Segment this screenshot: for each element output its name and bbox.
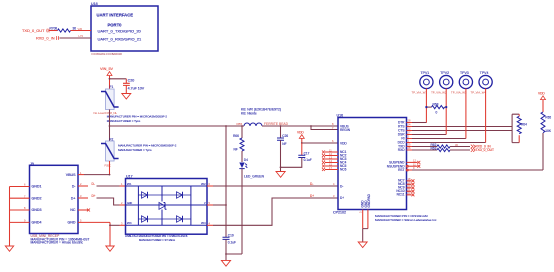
svg-text:D+: D+ — [310, 194, 314, 198]
svg-text:C19: C19 — [228, 233, 234, 237]
svg-text:VDD: VDD — [538, 91, 545, 95]
svg-text:GNDPAD: GNDPAD — [367, 193, 371, 207]
svg-text:R64: R64 — [521, 123, 527, 127]
svg-text:10K: 10K — [545, 129, 552, 133]
svg-text:C17: C17 — [304, 152, 310, 156]
svg-text:MANUFACTURER = Tyco: MANUFACTURER = Tyco — [118, 148, 152, 152]
svg-text:VDD: VDD — [340, 141, 347, 145]
svg-text:TXD_0_OUT: TXD_0_OUT — [476, 148, 494, 152]
svg-text:D-: D- — [92, 182, 95, 186]
svg-text:VIN_5V: VIN_5V — [100, 67, 114, 71]
svg-text:I/O2: I/O2 — [201, 184, 206, 186]
svg-text:NC: NC — [70, 208, 76, 212]
svg-text:NC6: NC6 — [340, 168, 347, 172]
svg-text:REGIN: REGIN — [340, 128, 351, 132]
svg-text:4.7uF 10V: 4.7uF 10V — [128, 87, 145, 91]
svg-text:C26: C26 — [282, 134, 288, 138]
svg-text:0: 0 — [436, 111, 438, 115]
svg-text:MANUFACTURER = ST Micro: MANUFACTURER = ST Micro — [139, 238, 176, 242]
svg-text:FERRITE BEAD: FERRITE BEAD — [264, 122, 289, 126]
svg-text:R63: R63 — [431, 147, 437, 151]
svg-text:NF: NF — [282, 142, 286, 146]
svg-text:GND1: GND1 — [32, 185, 42, 189]
svg-text:J9: J9 — [30, 162, 34, 166]
svg-text:FB5: FB5 — [237, 122, 243, 126]
svg-text:L73: L73 — [79, 34, 84, 38]
svg-text:D+: D+ — [71, 196, 76, 200]
svg-text:MANUFACTURER = Hirose Electric: MANUFACTURER = Hirose Electric — [31, 241, 84, 245]
svg-text:LED_GREEN: LED_GREEN — [244, 174, 265, 178]
svg-text:GND4: GND4 — [32, 221, 42, 225]
svg-text:MANUFACTURER PIN = MICROASMD05: MANUFACTURER PIN = MICROASMD050F-2 — [107, 115, 168, 119]
svg-text:CP2102: CP2102 — [333, 211, 346, 215]
svg-text:KB: Niente: KB: Niente — [241, 111, 257, 115]
svg-text:U18: U18 — [91, 2, 98, 6]
svg-text:VBUS: VBUS — [66, 173, 76, 177]
svg-text:R66: R66 — [233, 134, 239, 138]
svg-text:TP_VIA_W2: TP_VIA_W2 — [431, 91, 447, 95]
svg-text:R65: R65 — [545, 115, 551, 119]
svg-text:I/O4: I/O4 — [201, 223, 206, 225]
svg-text:D4: D4 — [244, 158, 248, 162]
svg-text:D-: D- — [340, 184, 343, 188]
svg-text:U17: U17 — [126, 175, 133, 179]
svg-text:TPV3: TPV3 — [460, 71, 469, 75]
svg-text:F2: F2 — [110, 137, 114, 141]
svg-text:USBLC6-2 MANUFACTURER PIN: USBLC6-2 MANUFACTURER PIN = USBLC6-2SC6 — [125, 234, 188, 238]
svg-text:R68: R68 — [433, 102, 439, 106]
svg-text:PORT0: PORT0 — [108, 23, 123, 28]
svg-text:D+: D+ — [92, 194, 96, 198]
svg-text:VDD: VDD — [297, 130, 304, 134]
svg-text:MANUFACTURER = Tyco: MANUFACTURER = Tyco — [107, 119, 141, 123]
svg-text:MANUFACTURER = Silicon Laborat: MANUFACTURER = Silicon Laboratories Inc — [375, 218, 437, 222]
svg-text:TP_VIA_W3: TP_VIA_W3 — [451, 91, 467, 95]
svg-text:D-: D- — [310, 182, 313, 186]
svg-text:TPV4: TPV4 — [480, 71, 489, 75]
svg-text:GND3: GND3 — [32, 208, 42, 212]
svg-text:TP_VIA_W4: TP_VIA_W4 — [471, 91, 487, 95]
svg-text:GND: GND — [127, 203, 132, 205]
svg-text:D+: D+ — [340, 196, 344, 200]
svg-text:RXD_0_IN: RXD_0_IN — [36, 36, 55, 41]
svg-text:GND2: GND2 — [32, 196, 42, 200]
svg-text:TPV1: TPV1 — [421, 71, 430, 75]
svg-text:U16: U16 — [337, 114, 344, 118]
svg-text:RXD: RXD — [398, 148, 405, 152]
svg-text:C20: C20 — [128, 79, 135, 83]
svg-text:UART_0_TXD/GPIO_20: UART_0_TXD/GPIO_20 — [98, 28, 142, 33]
svg-text:GND: GND — [68, 221, 76, 225]
svg-text:NF: NF — [234, 148, 238, 152]
svg-text:0.1uF: 0.1uF — [304, 158, 312, 162]
svg-text:RST: RST — [398, 168, 404, 172]
svg-text:UART_0_RXD/GPIO_21: UART_0_RXD/GPIO_21 — [98, 36, 142, 41]
svg-text:I/O3: I/O3 — [127, 223, 132, 225]
svg-text:FOOBAR02-FOOBAR02R: FOOBAR02-FOOBAR02R — [92, 52, 123, 56]
svg-text:UART INTERFACE: UART INTERFACE — [97, 13, 134, 18]
svg-text:TXD_0_OUT: TXD_0_OUT — [22, 28, 45, 33]
svg-text:TP_VIA_W1: TP_VIA_W1 — [412, 91, 428, 95]
svg-text:MANUFACTURER PIN = MICROSMD050: MANUFACTURER PIN = MICROSMD050F-2 — [118, 144, 177, 148]
svg-text:I/O1: I/O1 — [127, 184, 132, 186]
svg-text:F1: F1 — [110, 85, 114, 89]
svg-text:NC11: NC11 — [397, 193, 405, 197]
svg-text:0.1uF: 0.1uF — [228, 241, 236, 245]
svg-text:TPV2: TPV2 — [440, 71, 449, 75]
